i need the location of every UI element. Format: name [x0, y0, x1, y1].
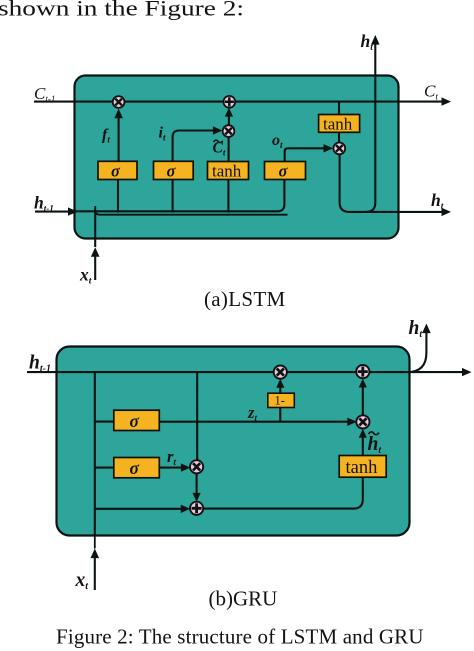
svg-text:ht: ht	[409, 318, 424, 340]
svg-text:ht-1: ht-1	[29, 353, 51, 375]
svg-text:σ: σ	[130, 411, 140, 431]
svg-text:tanh: tanh	[212, 162, 242, 181]
svg-text:(a)LSTM: (a)LSTM	[204, 287, 285, 311]
gate box sigma update	[114, 410, 160, 431]
svg-text:xt: xt	[79, 265, 92, 287]
svg-text:Figure 2: The structure of LST: Figure 2: The structure of LSTM and GRU	[56, 625, 424, 649]
wire: one-minus box feed up into multiply	[276, 379, 284, 393]
svg-text:Ct: Ct	[424, 82, 438, 103]
wire: r branch line into sigma	[95, 467, 114, 469]
wire: reset multiply down to add	[193, 473, 201, 502]
op node add bottom	[190, 502, 203, 515]
wire: bottom bus into output-gate stem	[75, 180, 285, 212]
svg-text:σ: σ	[279, 162, 289, 181]
wire: z line to multiply	[159, 418, 356, 426]
op node add cellstate	[223, 96, 235, 108]
svg-text:σ: σ	[130, 458, 140, 478]
wire: r_t arrow into multiply	[159, 463, 190, 471]
op node multiply z gate	[274, 366, 287, 379]
wire: C cell-state line	[34, 97, 451, 105]
wire: output tanh to multiply	[338, 132, 340, 143]
gate box sigma reset	[114, 458, 160, 479]
wire: f_t arrow into multiply	[114, 109, 123, 162]
wire: multiply up into add	[359, 379, 367, 416]
op node add h out	[356, 365, 369, 378]
svg-text:(b)GRU: (b)GRU	[209, 587, 278, 611]
wire: lower parallel h line	[95, 206, 287, 215]
wire: x_t input stem	[91, 212, 100, 281]
op node multiply reset	[190, 460, 203, 473]
gate box tanh candidate	[208, 162, 249, 181]
svg-text:ht-1: ht-1	[34, 193, 54, 214]
gate box tanh output	[319, 114, 360, 133]
wire: candidate arrow tanh to multiply	[228, 137, 230, 162]
wire: tanh up into multiply	[359, 429, 367, 456]
op node multiply input	[223, 125, 235, 137]
svg-text:Ct-1: Ct-1	[34, 84, 55, 104]
wire: o_t elbow arrow into output multiply	[285, 144, 333, 161]
wire: i_t elbow arrow into multiply	[173, 126, 223, 161]
wire: add output to tanh elbow	[203, 477, 363, 508]
gate box sigma forget	[98, 161, 137, 180]
wire: forget-gate stem	[117, 180, 119, 213]
wire: multiply to plus arrow	[225, 108, 233, 126]
wire: h_t-1 entry arrow	[35, 207, 78, 215]
op node multiply candidate	[356, 415, 369, 428]
svg-text:1-: 1-	[275, 394, 285, 408]
wire: z branch line into sigma	[95, 421, 114, 423]
wire: h_t upward branch	[407, 324, 431, 373]
gate box sigma input	[154, 161, 194, 180]
svg-text:ht: ht	[431, 190, 444, 212]
wire: one-minus box tap from z line	[279, 408, 281, 422]
svg-text:σ: σ	[167, 162, 177, 181]
wire: C line into output tanh	[338, 102, 340, 115]
wire: main left vertical	[94, 372, 96, 536]
wire: candidate tanh stem	[227, 180, 229, 213]
wire: input-gate stem	[172, 180, 174, 213]
wire: h top line	[27, 368, 472, 376]
svg-text:ht: ht	[361, 31, 374, 53]
svg-text:σ: σ	[111, 162, 121, 181]
svg-text:xt: xt	[75, 570, 90, 592]
wire: x_t input below box	[91, 536, 100, 590]
svg-text:tanh: tanh	[323, 114, 353, 133]
svg-text:shown in the Figure 2:: shown in the Figure 2:	[0, 0, 244, 21]
op node multiply output	[333, 143, 345, 155]
wire: h_t upward branch	[366, 35, 380, 212]
op node multiply forget	[113, 96, 125, 108]
wire: bottom line into add	[95, 505, 190, 513]
gate box tanh candidate	[339, 456, 386, 479]
wire: second vertical to reset multiply	[196, 372, 198, 461]
gate box sigma output	[265, 162, 306, 181]
wire: h_t exit arrowhead	[442, 208, 452, 216]
gate box one-minus	[268, 393, 295, 407]
wire: output multiply down to h line	[340, 154, 445, 212]
LSTM cell body box	[75, 76, 399, 239]
svg-text:tanh: tanh	[346, 458, 378, 478]
GRU cell body box	[57, 347, 410, 536]
